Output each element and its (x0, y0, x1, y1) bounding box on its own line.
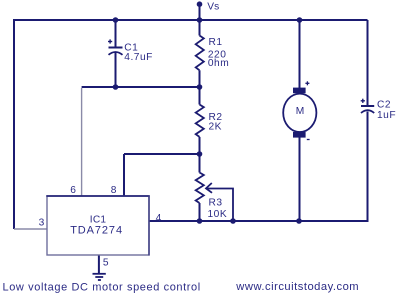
svg-text:R1: R1 (209, 37, 223, 48)
svg-text:C2: C2 (377, 100, 391, 111)
svg-text:Low voltage DC motor speed con: Low voltage DC motor speed control (3, 282, 201, 294)
svg-text:M: M (296, 106, 305, 117)
svg-text:3: 3 (39, 218, 45, 229)
svg-text:5: 5 (103, 257, 109, 268)
svg-text:Vs: Vs (207, 2, 219, 13)
svg-text:R3: R3 (209, 198, 223, 209)
svg-text:0hm: 0hm (208, 58, 229, 69)
svg-text:2K: 2K (209, 122, 222, 133)
svg-text:6: 6 (70, 185, 76, 196)
svg-text:4: 4 (156, 213, 162, 224)
svg-text:4.7uF: 4.7uF (124, 52, 153, 63)
svg-text:8: 8 (111, 185, 117, 196)
svg-text:10K: 10K (208, 209, 228, 220)
svg-text:TDA7274: TDA7274 (70, 224, 123, 236)
svg-text:www.circuitstoday.com: www.circuitstoday.com (235, 281, 359, 293)
svg-text:1uF: 1uF (377, 110, 396, 121)
